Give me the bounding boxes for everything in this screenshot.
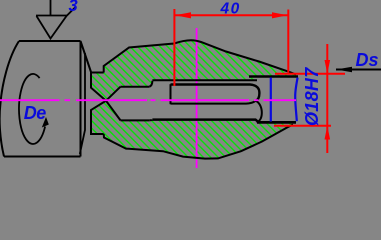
svg-text:Ø18H7: Ø18H7 [302,67,322,126]
arrowhead left [175,12,191,18]
mandrel body hatched section [91,40,298,158]
Ds leader arrow [336,69,381,71]
Ø18H7 dimension line [326,44,328,153]
dimension 40 extension line right [287,10,289,73]
horizontal magenta centerline [0,99,296,101]
step bottom curve [149,119,152,122]
top edge of sleeve [249,75,298,78]
arrowhead right [272,12,288,18]
body left face, neck and centre-hole notch [91,73,106,135]
arrowhead down [325,60,331,74]
svg-text:Ds: Ds [356,50,379,70]
dimension 40 line [174,14,288,16]
surface finish symbol bar [36,15,67,17]
arrowhead up [325,126,331,140]
centre hole cone [106,87,121,121]
dimension 40 extension line left [173,9,175,86]
Ø18H7 extension line top [275,73,345,75]
socket end curve [256,101,262,122]
pilot hole top wall [121,86,150,88]
pilot hole bottom wall [121,119,150,121]
tang slot left wall [170,84,172,104]
body bottom profile [104,125,293,159]
sleeve bottom edge [257,121,296,124]
svg-text:3: 3 [69,0,78,15]
grinding wheel outline [0,41,91,157]
surface finish symbol stem [50,0,52,16]
vertical magenta centerline [196,28,198,168]
bore top wall [152,79,257,81]
body top profile [104,40,296,74]
svg-text:40: 40 [220,1,241,18]
wheel bore ellipse arc with arrow [19,74,45,144]
H7 bore start line (blue) [270,78,272,122]
tang slot top wall [171,85,260,101]
right end face (blue) [295,78,297,122]
svg-text:De: De [24,103,46,123]
wheel back edge line [80,53,85,154]
Ø18H7 extension line bottom [274,125,331,127]
rotation arrowhead [42,117,49,128]
internal bore void (unhatched) [106,78,298,122]
surface finish symbol V [37,7,77,39]
step top curve [149,81,152,87]
tang slot bottom wall [171,101,256,104]
bore bottom wall [152,120,258,123]
